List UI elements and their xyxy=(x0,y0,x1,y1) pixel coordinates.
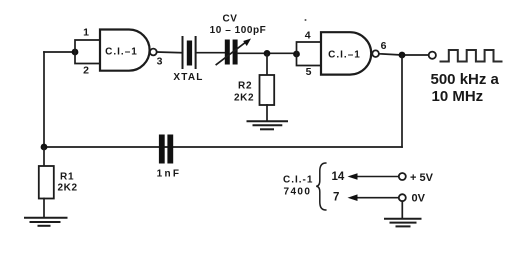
svg-text:10 MHz: 10 MHz xyxy=(432,88,484,105)
wire gate2 output xyxy=(379,54,429,55)
ground below R2 xyxy=(248,121,288,129)
inverter bubble of U1B xyxy=(372,50,379,57)
node C (gate2 input junction) xyxy=(293,51,300,58)
wire pin 5 of U1B xyxy=(297,54,322,66)
wire R1 top lead xyxy=(43,147,45,166)
svg-text:C.I.-1: C.I.-1 xyxy=(283,175,313,186)
svg-text:2K2: 2K2 xyxy=(58,183,78,194)
arrow to pin 14 from +5V xyxy=(348,172,434,184)
wire pin 2 of U1A xyxy=(75,52,100,64)
node A (gate1 input junction) xyxy=(72,49,79,56)
wire left vertical rail xyxy=(43,52,45,147)
svg-text:C.I.–1: C.I.–1 xyxy=(328,50,361,61)
trimmer capacitor CV 10-100pF xyxy=(210,14,267,65)
crystal XTAL xyxy=(173,37,203,83)
wire output vertical feedback xyxy=(401,55,403,147)
wire gate1 output to crystal xyxy=(157,51,182,54)
wire left-top horizontal to gate input node xyxy=(44,51,75,53)
ground below R1 xyxy=(25,218,67,226)
square wave symbol xyxy=(441,50,502,62)
wire pin 1 of U1A xyxy=(75,40,100,52)
svg-text:R1: R1 xyxy=(60,172,74,183)
resistor R1 xyxy=(39,166,78,199)
svg-text:0V: 0V xyxy=(412,193,426,205)
svg-text:500 kHz a: 500 kHz a xyxy=(431,71,500,88)
svg-text:2: 2 xyxy=(83,65,89,77)
wire R2 bottom lead xyxy=(266,105,268,121)
wire pin 4 of U1B xyxy=(297,42,322,54)
wire CV to gate2 input node xyxy=(238,52,297,54)
NAND gate U1A (C.I-1) xyxy=(100,30,150,71)
svg-text:3: 3 xyxy=(157,56,163,68)
node D (output junction) xyxy=(399,52,406,59)
resistor R2 xyxy=(234,75,274,105)
wire R2 top lead xyxy=(266,53,268,75)
ground at 0V xyxy=(385,219,421,227)
svg-text:7: 7 xyxy=(333,192,339,204)
wire feedback rail xyxy=(44,146,402,148)
capacitor 1nF xyxy=(157,135,182,180)
svg-text:4: 4 xyxy=(305,30,311,42)
svg-text:CV: CV xyxy=(223,14,238,25)
svg-text:6: 6 xyxy=(381,40,387,52)
speck artifact xyxy=(305,19,307,21)
svg-text:+ 5V: + 5V xyxy=(410,172,434,184)
arrow to pin 7 from 0V xyxy=(348,193,426,205)
svg-text:7400: 7400 xyxy=(284,187,312,198)
svg-text:XTAL: XTAL xyxy=(173,72,203,83)
output terminal xyxy=(429,52,436,59)
label C.I.-1 7400 xyxy=(283,175,313,198)
node E (feedback/R1 junction) xyxy=(41,144,48,151)
svg-text:R2: R2 xyxy=(238,81,252,92)
node B (R2 junction) xyxy=(264,50,271,57)
svg-text:10 – 100pF: 10 – 100pF xyxy=(210,25,267,36)
wire 0V to ground xyxy=(401,201,403,218)
svg-text:5: 5 xyxy=(306,66,312,78)
wire R1 bottom lead xyxy=(43,199,45,218)
svg-text:1nF: 1nF xyxy=(157,169,182,180)
svg-text:C.I.–1: C.I.–1 xyxy=(105,47,138,58)
svg-text:14: 14 xyxy=(332,171,345,183)
svg-text:2K2: 2K2 xyxy=(234,93,254,104)
NAND gate U1B (C.I-1) xyxy=(321,32,371,74)
wire crystal to CV xyxy=(197,52,226,54)
brace xyxy=(316,163,326,210)
svg-text:1: 1 xyxy=(83,27,89,39)
inverter bubble of U1A xyxy=(150,49,157,56)
